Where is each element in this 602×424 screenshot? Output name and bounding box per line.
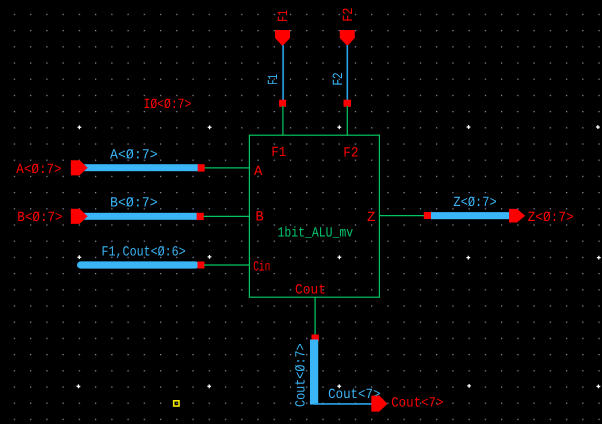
junction square Cout xyxy=(312,335,319,342)
svg-text:1bit_ALU_mv: 1bit_ALU_mv xyxy=(278,226,354,242)
bus F1,Cout&lt;0:6&gt; (wide wire, rounded ends) xyxy=(77,261,199,268)
svg-text:F1: F1 xyxy=(271,145,286,161)
junction square A xyxy=(198,164,205,171)
svg-text:Cout<Ø:7>: Cout<Ø:7> xyxy=(293,343,309,407)
pin F1 (top input pin arrow) xyxy=(275,30,290,46)
svg-text:Z<Ø:7>: Z<Ø:7> xyxy=(453,195,496,211)
svg-text:B<Ø:7>: B<Ø:7> xyxy=(110,196,158,212)
marker (small yellow square) xyxy=(174,401,179,406)
svg-text:Cout<7>: Cout<7> xyxy=(391,396,443,412)
svg-text:B: B xyxy=(255,210,263,226)
pin Cout&lt;7&gt; (output pin arrow) xyxy=(371,396,387,412)
svg-text:Z: Z xyxy=(367,210,375,226)
pin B&lt;0:7&gt; (input pin arrow) xyxy=(71,209,88,224)
bus B&lt;0:7&gt; (wide wire) xyxy=(84,213,198,220)
pin A&lt;0:7&gt; (input pin arrow) xyxy=(71,160,88,175)
junction square Cin xyxy=(198,262,205,269)
wire Cout&lt;7&gt; (blue horizontal) xyxy=(314,403,372,405)
svg-text:A<Ø:7>: A<Ø:7> xyxy=(110,148,158,164)
wire B stub (green) xyxy=(204,215,251,217)
svg-text:Cout: Cout xyxy=(295,283,326,299)
svg-text:F2: F2 xyxy=(343,145,358,161)
svg-text:A: A xyxy=(254,164,263,180)
svg-text:A<Ø:7>: A<Ø:7> xyxy=(16,162,61,178)
wire Cout stub (green) xyxy=(314,297,316,335)
wire F2 stub (green) xyxy=(346,106,348,136)
wire Z stub (green) xyxy=(379,215,424,217)
junction square B xyxy=(197,213,204,220)
pin F2 (top input pin arrow) xyxy=(340,30,355,46)
wire F2 (blue vertical) xyxy=(346,45,348,100)
wire F1 (blue vertical) xyxy=(282,45,284,100)
symbol 1bit_ALU_mv body (instance I0) xyxy=(249,135,379,297)
wire F1 stub (green) xyxy=(282,106,284,136)
bus Z&lt;0:7&gt; (wide wire) xyxy=(431,212,510,219)
svg-text:B<Ø:7>: B<Ø:7> xyxy=(17,210,62,226)
svg-text:Cin: Cin xyxy=(253,260,270,276)
bus A&lt;0:7&gt; (wide wire) xyxy=(84,164,198,171)
bus Cout&lt;0:7&gt; (wide vertical wire) xyxy=(310,340,318,405)
svg-text:IØ<Ø:7>: IØ<Ø:7> xyxy=(144,97,192,113)
pin Z&lt;0:7&gt; (output pin arrow) xyxy=(509,209,525,223)
wire A stub (green) xyxy=(205,167,251,169)
wire Cin stub (green) xyxy=(204,264,250,266)
svg-text:F1: F1 xyxy=(266,74,282,85)
svg-text:Z<Ø:7>: Z<Ø:7> xyxy=(528,210,574,226)
junction square F2 xyxy=(344,100,352,107)
svg-text:F1: F1 xyxy=(276,10,292,22)
svg-text:F2: F2 xyxy=(341,8,357,22)
svg-text:F1,Cout<Ø:6>: F1,Cout<Ø:6> xyxy=(102,244,186,260)
junction square F1 xyxy=(279,100,286,107)
junction square Z xyxy=(424,212,432,219)
svg-text:F2: F2 xyxy=(331,72,347,85)
